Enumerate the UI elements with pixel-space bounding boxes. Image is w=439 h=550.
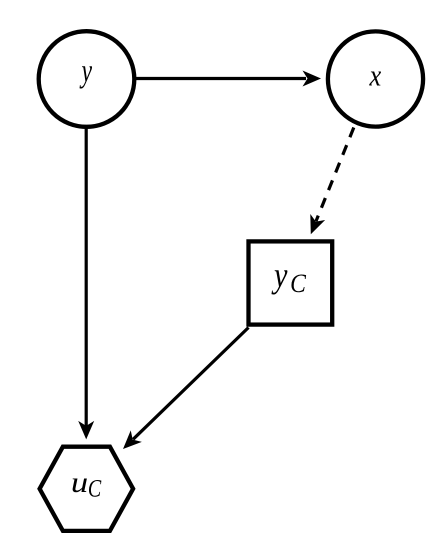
wire yC to uC (solid arrow) xyxy=(123,328,249,450)
wire y to uC (solid arrow) xyxy=(78,126,94,439)
node uC (hexagon) xyxy=(40,447,134,531)
svg-text:y: y xyxy=(271,256,287,296)
svg-text:y: y xyxy=(79,53,92,90)
node x (circle) xyxy=(328,31,423,126)
wire x to yC (dashed arrow) xyxy=(310,128,354,235)
node yC (square) xyxy=(249,241,333,324)
label y xyxy=(79,53,92,90)
label yC xyxy=(271,256,287,296)
label uC xyxy=(71,465,88,498)
wire y to x (solid arrow) xyxy=(135,71,322,87)
node y (circle) xyxy=(39,31,135,127)
svg-text:x: x xyxy=(369,59,382,93)
label x xyxy=(369,59,382,93)
svg-text:C: C xyxy=(88,474,102,502)
svg-text:C: C xyxy=(290,270,306,298)
svg-text:u: u xyxy=(71,465,88,498)
